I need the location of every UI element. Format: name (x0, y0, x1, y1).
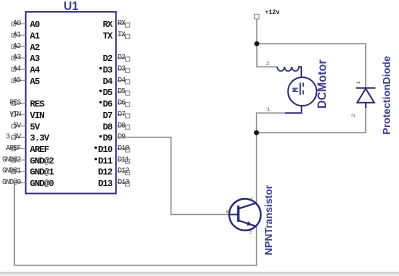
pin D8 (right) (103, 122, 130, 132)
svg-text:C: C (251, 197, 254, 203)
pin D3 (right) (99, 66, 129, 76)
diode cathode bar (356, 87, 376, 89)
svg-text:RX: RX (103, 20, 114, 30)
pin A5 (left) (12, 77, 40, 87)
svg-text:VIN: VIN (30, 111, 44, 121)
wire motor pin 1 to lower junction (257, 113, 286, 133)
svg-text:D10: D10 (118, 145, 129, 153)
svg-text:1: 1 (355, 80, 362, 84)
motor DC symbol solid bar (299, 83, 301, 95)
svg-text:D7: D7 (103, 111, 113, 121)
wire diode bottom to lower junction (257, 106, 366, 133)
pin D11 (right) (94, 156, 129, 166)
svg-text:D4: D4 (118, 77, 126, 85)
svg-text:2: 2 (350, 113, 357, 117)
svg-text:A1: A1 (30, 31, 41, 41)
svg-text:GND@2: GND@2 (2, 156, 21, 164)
svg-text:GND@0: GND@0 (30, 179, 54, 189)
pin A1 (left) (12, 31, 41, 41)
svg-text:A3: A3 (13, 54, 21, 62)
svg-text:D6: D6 (103, 100, 113, 110)
window bottom border band (0, 272, 399, 276)
svg-text:RES: RES (10, 100, 21, 108)
svg-text:D11: D11 (98, 156, 113, 166)
motor DC symbol dashed bar (302, 83, 304, 95)
svg-text:A3: A3 (30, 54, 40, 64)
svg-text:GND@1: GND@1 (30, 168, 55, 178)
svg-text:B: B (226, 209, 229, 215)
pin D9 (right) (99, 134, 125, 144)
junction node +12v (254, 41, 259, 46)
svg-text:GND@1: GND@1 (2, 168, 21, 176)
pin A0 (left) (12, 20, 40, 30)
svg-text:A4: A4 (13, 66, 21, 74)
DC motor body circle (288, 77, 317, 106)
svg-text:D6: D6 (118, 100, 126, 108)
svg-text:D12: D12 (98, 168, 112, 178)
svg-text:3.3V: 3.3V (30, 134, 50, 144)
svg-text:U1: U1 (64, 1, 79, 13)
svg-text:D3: D3 (103, 66, 113, 76)
chip U1 body (26, 12, 116, 194)
pin TX (right) (103, 31, 130, 41)
diode bottom stub (365, 103, 367, 108)
pin A4 (left) (12, 66, 41, 76)
transistor emitter line (239, 221, 256, 227)
pin D12 (right) (98, 168, 130, 178)
svg-text:A4: A4 (30, 66, 41, 76)
transistor collector line (239, 203, 256, 209)
svg-text:AREF: AREF (30, 145, 49, 155)
wire GND@0 to transistor emitter (bottom rail) (14, 183, 256, 266)
svg-text:D12: D12 (118, 168, 129, 176)
pin D13 (right) (98, 179, 130, 189)
pin AREF (left) (6, 145, 49, 155)
svg-text:1: 1 (267, 106, 271, 113)
svg-text:A0: A0 (13, 20, 21, 28)
pin 5V (left) (12, 122, 41, 132)
svg-text:A2: A2 (30, 43, 40, 53)
pin D2 (right) (103, 54, 130, 64)
pin D7 (right) (103, 111, 130, 121)
wire junction down to motor pin 2 (257, 44, 278, 67)
pin D5 (right) (99, 88, 129, 98)
pin VIN (left) (10, 111, 45, 121)
svg-text:D7: D7 (118, 111, 126, 119)
svg-text:M: M (292, 87, 301, 92)
svg-text:D5: D5 (103, 88, 113, 98)
svg-text:D13: D13 (98, 179, 112, 189)
pin RES (left) (10, 100, 46, 110)
transistor Q1 circle (229, 199, 261, 231)
diode triangle (357, 89, 374, 103)
svg-text:TX: TX (103, 31, 114, 41)
pin GND@0 (left) (2, 179, 53, 189)
svg-text:A2: A2 (13, 43, 21, 51)
svg-text:D4: D4 (103, 77, 114, 87)
pin D6 (right) (99, 100, 129, 110)
svg-text:+12v: +12v (265, 9, 280, 16)
svg-text:D9: D9 (103, 134, 113, 144)
transistor base bar (237, 206, 239, 222)
wire +12v down to junction (256, 19, 258, 44)
pin D10 (right) (94, 145, 129, 155)
pin RX (right) (103, 20, 130, 30)
svg-text:3.3V: 3.3V (6, 134, 22, 142)
svg-text:D5: D5 (118, 88, 126, 96)
svg-text:D2: D2 (103, 54, 113, 64)
svg-text:5V: 5V (30, 122, 41, 132)
transistor base line (229, 214, 238, 216)
svg-text:D13: D13 (118, 179, 129, 187)
svg-text:D2: D2 (118, 54, 126, 62)
pin GND@2 (left) (2, 156, 53, 166)
svg-text:VIN: VIN (10, 111, 21, 119)
svg-text:GND@2: GND@2 (30, 156, 54, 166)
svg-text:A5: A5 (13, 77, 21, 85)
pin A2 (left) (12, 43, 40, 53)
svg-text:2: 2 (266, 60, 270, 67)
wire lower junction to transistor collector (256, 133, 258, 204)
svg-text:D3: D3 (118, 66, 126, 74)
svg-text:D8: D8 (118, 122, 126, 130)
DC motor coil (pin 2) (277, 67, 301, 78)
svg-text:D10: D10 (98, 145, 112, 155)
svg-text:D11: D11 (118, 156, 129, 164)
wire junction to diode top (257, 44, 366, 88)
pin 3.3V (left) (6, 134, 50, 144)
svg-text:A0: A0 (30, 20, 40, 30)
power symbol +12v pad (254, 14, 259, 19)
pin A3 (left) (12, 54, 40, 64)
svg-text:ProtectionDiode: ProtectionDiode (382, 56, 393, 135)
DC motor pin 1 stub (285, 106, 302, 113)
svg-text:AREF: AREF (6, 145, 21, 153)
svg-text:D8: D8 (103, 122, 113, 132)
svg-text:NPNTransistor: NPNTransistor (264, 185, 275, 255)
svg-text:GND@0: GND@0 (2, 179, 21, 187)
pin GND@1 (left) (2, 168, 54, 178)
svg-text:RES: RES (30, 100, 45, 110)
svg-text:A1: A1 (13, 31, 21, 39)
junction node motor/diode/collector (254, 130, 259, 135)
pin D4 (right) (103, 77, 130, 87)
svg-text:A5: A5 (30, 77, 40, 87)
svg-text:E: E (250, 230, 253, 236)
svg-text:DCMotor: DCMotor (316, 59, 329, 108)
transistor emitter arrow (247, 221, 253, 225)
wire D9 to transistor base (116, 137, 229, 214)
